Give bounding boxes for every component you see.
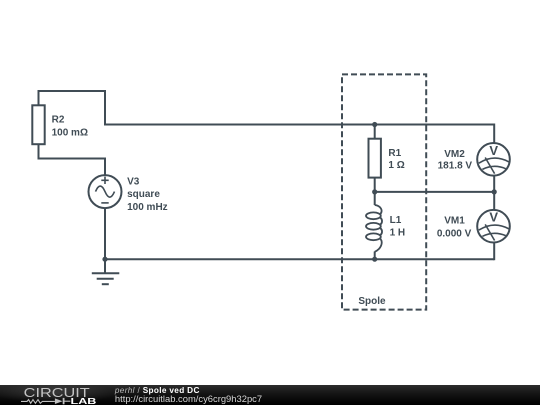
wire from R2 bottom to V3 top	[39, 144, 106, 177]
svg-text:V3: V3	[127, 176, 140, 187]
svg-text:181.8 V: 181.8 V	[438, 161, 473, 172]
wire L1 top stem	[374, 192, 376, 205]
voltmeter VM2	[477, 143, 510, 176]
label R2 value	[52, 115, 88, 139]
svg-text:L1: L1	[390, 215, 402, 226]
svg-text:Spole: Spole	[358, 296, 386, 307]
node dot top rail / R1	[372, 122, 377, 127]
svg-text:100 mΩ: 100 mΩ	[52, 128, 88, 139]
inductor L1	[366, 205, 382, 252]
footer bar	[0, 385, 540, 405]
wire bottom rail	[105, 258, 494, 260]
svg-text:1 Ω: 1 Ω	[388, 160, 404, 171]
svg-text:square: square	[127, 189, 160, 200]
wire V3 bottom to ground node	[104, 208, 106, 260]
label VM1 value	[437, 215, 472, 239]
wire VM1 top stem	[493, 192, 495, 211]
wire VM1 bottom stem	[493, 242, 495, 260]
svg-text:R2: R2	[52, 115, 65, 126]
node dot bottom rail / L1	[372, 257, 377, 262]
svg-text:R1: R1	[388, 148, 401, 159]
wire L1 bottom stem	[374, 252, 376, 260]
wire top-left from R2 top to top rail	[39, 91, 106, 126]
logo resistor zigzag glyph	[21, 399, 55, 403]
svg-text:LAB: LAB	[71, 397, 97, 405]
label L1 value	[390, 215, 406, 239]
svg-text:V: V	[489, 210, 498, 225]
resistor R1	[369, 139, 381, 178]
footer title text	[114, 386, 200, 395]
svg-text:http://circuitlab.com/cy6crg9h: http://circuitlab.com/cy6crg9h32pc7	[115, 393, 262, 404]
CircuitLab logo wordmark CIRCUIT	[24, 384, 90, 399]
wire middle rail node B	[375, 191, 495, 193]
ground	[92, 259, 120, 284]
logo diode glyph	[55, 397, 70, 403]
wire VM2 bottom stem	[493, 175, 495, 192]
label VM2 value	[438, 149, 473, 172]
voltage source V3	[89, 175, 122, 208]
footer url text	[115, 393, 262, 404]
label R1 value	[388, 148, 404, 171]
wire top rail node A	[105, 124, 494, 126]
svg-text:0.000 V: 0.000 V	[437, 228, 472, 239]
svg-text:V: V	[489, 143, 498, 158]
voltmeter VM1	[477, 210, 510, 243]
wire VM2 top stem	[493, 124, 495, 145]
wire R1 bottom stem	[374, 177, 376, 192]
CircuitLab logo wordmark LAB	[71, 397, 97, 405]
resistor R2	[32, 105, 44, 144]
svg-text:100 mHz: 100 mHz	[127, 202, 168, 213]
svg-text:VM1: VM1	[444, 215, 465, 226]
node dot middle rail / R1-L1	[372, 189, 377, 194]
wire R1 top stem	[374, 125, 376, 140]
label Spole	[358, 296, 386, 307]
svg-text:1 H: 1 H	[390, 228, 406, 239]
label V3 value	[127, 176, 168, 212]
node dot middle rail / VM junction	[492, 189, 497, 194]
svg-text:VM2: VM2	[444, 149, 465, 160]
node dot ground junction	[102, 257, 107, 262]
dashed box Spole	[342, 74, 426, 309]
